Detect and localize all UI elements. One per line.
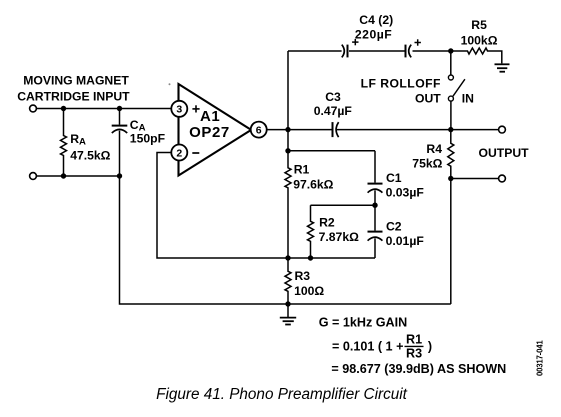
svg-text:97.6kΩ: 97.6kΩ <box>293 178 333 192</box>
svg-text:= 0.101 ( 1 +: = 0.101 ( 1 + <box>332 340 403 354</box>
resistor RA <box>61 109 67 177</box>
svg-text:C2: C2 <box>386 220 402 234</box>
wire: node to upper OUTPUT terminal <box>451 129 499 131</box>
op-amp minus sign <box>192 152 199 154</box>
capacitor CA <box>112 109 128 177</box>
svg-text:100Ω: 100Ω <box>294 284 324 298</box>
svg-text:Figure 41. Phono Preamplifier: Figure 41. Phono Preamplifier Circuit <box>156 386 408 403</box>
node: RA top junction <box>61 106 66 111</box>
wire: switch lower stub <box>450 101 452 129</box>
node: op-amp output junction <box>285 127 290 132</box>
artifact speck near triangle top <box>169 83 171 85</box>
svg-text:C3: C3 <box>325 90 341 104</box>
node: RA bottom junction <box>61 173 66 178</box>
svg-text:150pF: 150pF <box>130 131 165 145</box>
svg-text:R4: R4 <box>426 142 442 156</box>
svg-text:R1: R1 <box>406 333 422 347</box>
switch LF ROLLOFF: bottom contact <box>448 96 453 101</box>
wire: C1/C2 midpoint to R2 <box>311 204 376 206</box>
svg-text:R5: R5 <box>471 18 487 32</box>
node: R1 top junction <box>285 148 290 153</box>
svg-text:OP27: OP27 <box>189 124 230 141</box>
svg-text:R3: R3 <box>406 347 422 361</box>
wire: output node vertical column <box>287 51 289 151</box>
svg-text:R3: R3 <box>295 269 311 283</box>
svg-text:100kΩ: 100kΩ <box>461 34 498 48</box>
svg-text:): ) <box>428 340 432 354</box>
svg-text:0.47µF: 0.47µF <box>314 104 352 118</box>
polarity plus C4 second <box>415 39 421 45</box>
svg-text:47.5kΩ: 47.5kΩ <box>70 149 110 163</box>
resistor R3 <box>285 258 291 304</box>
resistor R2 <box>308 205 314 258</box>
resistor R1 <box>285 151 291 258</box>
svg-text:6: 6 <box>256 125 262 137</box>
svg-text:A1: A1 <box>200 108 220 125</box>
svg-text:C1: C1 <box>386 171 402 185</box>
resistor R5 <box>451 48 502 63</box>
wire: R1 node to C1 branch <box>288 150 375 152</box>
node: upper output junction <box>448 127 453 132</box>
capacitor C2 with leads <box>368 205 383 258</box>
svg-text:CARTRIDGE INPUT: CARTRIDGE INPUT <box>17 90 130 104</box>
svg-text:00317-041: 00317-041 <box>536 340 545 376</box>
terminal: input bottom <box>30 173 37 180</box>
ground (bottom, below R3) <box>280 304 296 325</box>
terminal: output bottom <box>499 175 506 182</box>
op-amp A1 triangle <box>179 84 252 176</box>
node: CA bottom junction <box>117 173 122 178</box>
capacitor C4 first (curved plate left, straight right) <box>342 45 348 58</box>
svg-text:MOVING MAGNET: MOVING MAGNET <box>23 73 129 87</box>
op-amp pin 3 circle <box>171 101 187 117</box>
wire: op-amp output pin 6 to node <box>267 129 288 131</box>
svg-text:OUTPUT: OUTPUT <box>479 146 530 160</box>
note: fraction bar <box>405 345 424 347</box>
svg-text:2: 2 <box>176 147 182 159</box>
capacitor C4 second (straight plate left, curved right) <box>406 45 412 58</box>
terminal: input top <box>30 105 37 112</box>
switch LF ROLLOFF: lever <box>453 79 465 96</box>
svg-text:R2: R2 <box>319 216 335 230</box>
wire: lower output node down to ground rail <box>450 179 452 305</box>
svg-text:220µF: 220µF <box>355 27 392 41</box>
wire: output node to C3 <box>288 129 332 131</box>
svg-text:LF ROLLOFF: LF ROLLOFF <box>361 77 441 91</box>
node: ground junction <box>285 301 290 306</box>
svg-text:G = 1kHz GAIN: G = 1kHz GAIN <box>319 315 408 329</box>
wire: top input rail <box>37 108 172 110</box>
node: CA top junction <box>117 106 122 111</box>
polarity plus C4 first <box>352 39 358 45</box>
svg-text:75kΩ: 75kΩ <box>412 157 442 171</box>
svg-text:R1: R1 <box>294 162 310 176</box>
svg-text:= 98.677 (39.9dB) AS SHOWN: = 98.677 (39.9dB) AS SHOWN <box>331 362 506 376</box>
svg-text:7.87kΩ: 7.87kΩ <box>319 230 359 244</box>
node: R1/R3 junction <box>285 255 290 260</box>
op-amp pin 2 circle <box>171 145 187 161</box>
wire: left descent and bottom ground run <box>120 176 451 304</box>
wire: top branch to C4 <box>288 50 342 52</box>
node: R2 bottom junction <box>308 255 313 260</box>
ground (right, after R5) <box>495 64 510 71</box>
node: C4/R5/switch junction <box>448 48 453 53</box>
wire: C4 to R5 junction <box>413 50 451 52</box>
terminal: output top <box>499 126 506 133</box>
wire: bottom feedback rail to C2 <box>288 257 375 259</box>
wire: switch upper stub <box>450 51 452 75</box>
svg-text:0.01µF: 0.01µF <box>386 234 424 248</box>
svg-text:IN: IN <box>462 92 474 106</box>
op-amp plus sign <box>192 105 199 112</box>
svg-text:0.03µF: 0.03µF <box>386 186 424 200</box>
wire: inverting input feedback (pin 2 to bottom node) <box>157 153 288 259</box>
wire: bottom input rail <box>37 175 120 177</box>
wire: between C4 capacitors <box>349 50 405 52</box>
svg-text:OUT: OUT <box>415 92 441 106</box>
svg-text:C4 (2): C4 (2) <box>359 13 393 27</box>
op-amp pin 6 circle <box>251 122 267 138</box>
resistor R4 <box>448 130 454 179</box>
switch LF ROLLOFF: top contact <box>448 75 453 80</box>
capacitor C1 with leads <box>368 151 383 205</box>
wire: node to lower OUTPUT terminal <box>451 178 499 180</box>
svg-text:3: 3 <box>176 104 182 116</box>
capacitor C3 <box>333 122 451 137</box>
node: lower output junction <box>448 176 453 181</box>
node: C1/C2/R2 junction <box>372 203 377 208</box>
